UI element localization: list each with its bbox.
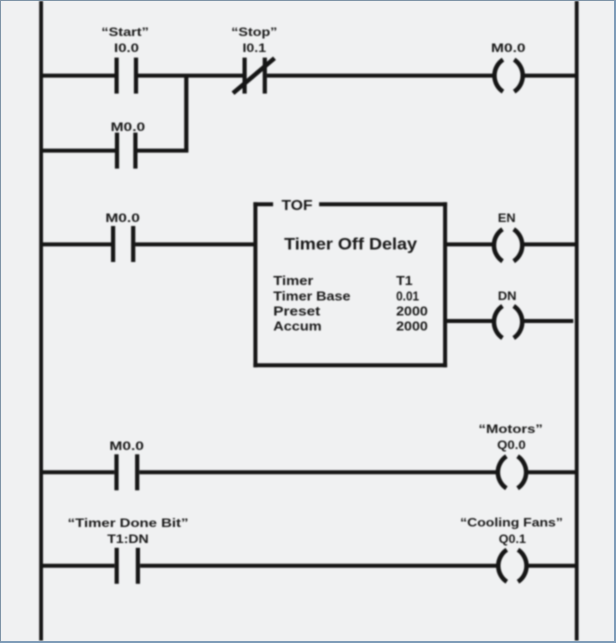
coil "Motors" Q0.0 xyxy=(498,456,526,488)
rung 2 wire: rail to M0.0 contact xyxy=(43,242,111,246)
contact M0.0 rung 2 xyxy=(113,226,133,262)
wire: EN coil to right rail xyxy=(524,242,575,246)
contact M0.0 seal-in branch xyxy=(117,133,135,169)
rung 3 wire: M0.0 contact to Motors coil xyxy=(139,470,497,474)
wire: DN coil to right rail xyxy=(524,319,574,323)
contact "Start" I0.0 xyxy=(117,58,136,94)
rung 2 wire: M0.0 contact to TOF block xyxy=(135,242,256,246)
NC contact "Stop" I0.1 xyxy=(233,58,275,94)
branch vertical wire xyxy=(184,76,188,151)
EN coil xyxy=(494,229,522,261)
rung 3 wire: rail to M0.0 contact xyxy=(43,470,114,474)
rung 1 wire: coil M0.0 to right rail xyxy=(524,74,575,78)
rung 3 wire: Motors coil to right rail xyxy=(528,470,575,474)
rung 4 wire: T1:DN contact to Cooling Fans coil xyxy=(140,564,498,568)
contact "Timer Done Bit" T1:DN xyxy=(117,548,138,584)
left power rail xyxy=(39,1,43,641)
rung 1 wire: Start to Stop contact xyxy=(138,74,243,78)
rung 4 wire: Cooling Fans coil to right rail xyxy=(528,564,575,568)
DN coil xyxy=(494,306,522,338)
coil "Cooling Fans" Q0.1 xyxy=(498,550,526,582)
coil M0.0 rung 1 xyxy=(494,60,522,92)
right power rail xyxy=(575,1,579,641)
branch rung wire: rail to M0.0 contact xyxy=(43,149,115,153)
rung 1 wire: rail to Start contact xyxy=(43,74,115,78)
wire: TOF block to EN coil xyxy=(447,242,493,246)
contact M0.0 rung 3 xyxy=(117,454,138,490)
rung 1 wire: Stop to coil M0.0 xyxy=(267,74,494,78)
branch rung wire: M0.0 contact to branch vertical xyxy=(137,149,188,153)
rung 4 wire: rail to T1:DN contact xyxy=(43,564,115,568)
TOF timer block outline xyxy=(253,202,447,367)
wire: TOF block to DN coil xyxy=(447,319,493,323)
